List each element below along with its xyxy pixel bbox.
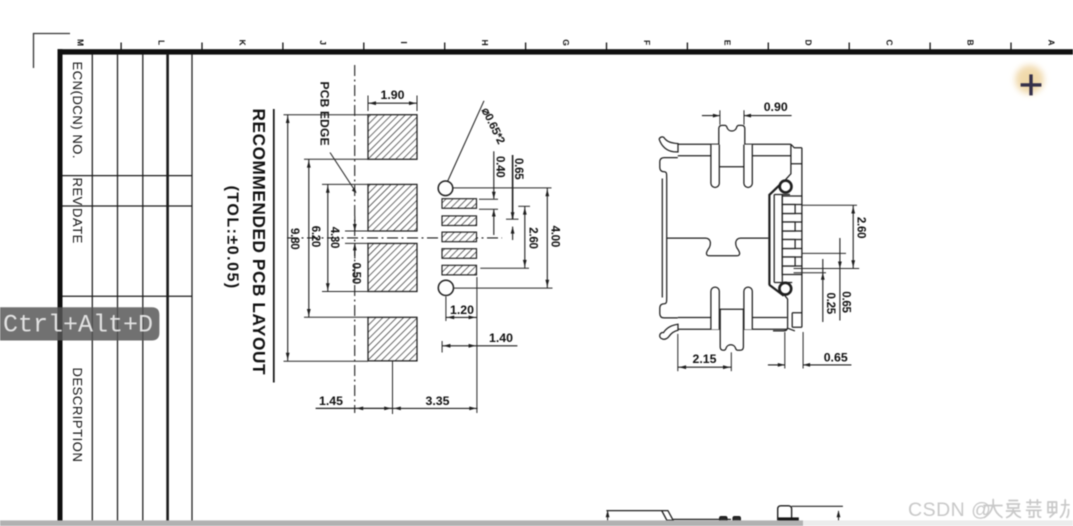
svg-text:2.60: 2.60 <box>527 227 540 248</box>
ext lines 0.90 <box>719 110 721 125</box>
watermark glyph huang <box>1027 500 1042 517</box>
bottom view arrow left <box>607 511 609 520</box>
svg-text:ECN(DCN) NO.: ECN(DCN) NO. <box>70 62 85 160</box>
shield crimp wall <box>768 195 770 285</box>
svg-text:1.40: 1.40 <box>489 331 513 345</box>
contact tooth 2 <box>782 214 802 223</box>
contact ext lines <box>802 204 857 206</box>
contact tooth 1 <box>782 196 802 205</box>
contact tooth 5 <box>782 266 802 275</box>
revision table grid <box>63 54 193 521</box>
svg-text:PCB EDGE: PCB EDGE <box>318 82 332 146</box>
svg-text:B: B <box>965 40 975 46</box>
dimension 0.65 (pitch) <box>839 238 841 321</box>
dimension 4.30 <box>327 184 329 291</box>
top right through-leg <box>744 145 752 188</box>
PCB EDGE leader <box>330 153 356 192</box>
bottom right through-leg <box>744 287 752 329</box>
svg-text:0.40: 0.40 <box>494 156 507 177</box>
svg-text:4.30: 4.30 <box>328 227 341 248</box>
svg-text:(TOL:±0.05): (TOL:±0.05) <box>224 186 241 290</box>
svg-text:M: M <box>76 39 86 46</box>
top-left shield wing <box>659 137 678 152</box>
dimension 0.65 (bottom right) <box>768 364 852 366</box>
svg-text:G: G <box>561 39 571 46</box>
svg-text:0.25: 0.25 <box>824 293 837 315</box>
bottom view tab base (dark) <box>778 517 799 521</box>
dimension 9.80 <box>287 115 289 361</box>
hole circle top <box>438 181 453 196</box>
dimension 4.00 <box>546 188 548 288</box>
dimension 2.15 <box>678 366 732 368</box>
horizontal centerline (dash-dot) <box>287 237 502 239</box>
svg-text:L: L <box>156 40 166 45</box>
connector shell bottom edge <box>678 317 787 319</box>
cursor plus <box>1021 74 1042 95</box>
top left through-leg <box>711 145 719 188</box>
top shield tab with notch <box>719 125 745 166</box>
watermark glyph ye <box>1048 500 1069 518</box>
bottom-left shield tail <box>660 324 678 339</box>
rivet circle bottom <box>779 283 791 295</box>
bottom view leg bump 1 <box>720 517 727 521</box>
svg-text:9.80: 9.80 <box>288 228 301 249</box>
bottom shield tab with notch <box>720 309 743 350</box>
connector shell top edge <box>678 143 791 145</box>
thick top border <box>58 49 1073 54</box>
dimension 6.20 <box>308 159 310 317</box>
svg-text:0.65: 0.65 <box>840 291 853 313</box>
dimension 2.60 <box>524 206 526 268</box>
top-right corner block <box>786 144 802 179</box>
center dovetail notch <box>667 238 768 256</box>
svg-text:4.00: 4.00 <box>549 226 562 247</box>
pad P2 (hatched) <box>368 184 417 231</box>
svg-text:2.15: 2.15 <box>693 352 717 366</box>
small pad S5 (hatched) <box>442 265 477 275</box>
corner crop mark <box>34 34 71 69</box>
svg-text:REV: REV <box>70 178 85 206</box>
svg-text:1.20: 1.20 <box>450 303 474 317</box>
small pad S2 (hatched) <box>442 216 477 226</box>
dimension 0.25 <box>822 259 824 322</box>
svg-text:Ctrl+Alt+D: Ctrl+Alt+D <box>3 311 153 340</box>
svg-text:1.45: 1.45 <box>319 394 343 408</box>
bottom-left latch tab <box>660 298 678 318</box>
ext lines 2.15 <box>677 334 679 371</box>
crimp slant bottom <box>769 285 784 296</box>
svg-text:DATE: DATE <box>70 208 85 244</box>
table labels <box>70 62 85 463</box>
watermark glyph xiang <box>1007 501 1021 518</box>
contact gap 2 <box>782 222 795 231</box>
contact tooth 4 <box>782 249 802 258</box>
video progress bar (remaining) <box>803 520 1073 526</box>
bottom view leg bump 2 <box>733 517 740 521</box>
pad P3 (hatched) <box>368 243 417 291</box>
bottom-right seam <box>773 294 795 331</box>
dimension 2.60 (right) <box>852 205 854 268</box>
bottom view mid line <box>673 518 731 520</box>
PCB edge centerline (vertical dash-dot) <box>354 65 356 413</box>
svg-text:A: A <box>1046 40 1056 46</box>
right wall <box>801 148 803 327</box>
cursor highlight blob <box>1015 65 1044 94</box>
bottom left through-leg <box>711 287 719 329</box>
svg-text:0.50: 0.50 <box>350 263 363 284</box>
svg-text:1.90: 1.90 <box>381 88 405 102</box>
svg-text:0.90: 0.90 <box>764 100 788 114</box>
dimension 1.90 <box>368 102 417 104</box>
svg-text:0.65: 0.65 <box>512 158 525 180</box>
bottom view arrow right <box>838 511 840 520</box>
dimension 1.20 <box>446 316 477 318</box>
svg-text:D: D <box>804 40 814 46</box>
svg-text:0.65: 0.65 <box>824 350 848 364</box>
watermark glyph da <box>984 500 1002 518</box>
svg-text:CSDN @: CSDN @ <box>908 499 991 521</box>
svg-text:F: F <box>642 40 652 45</box>
svg-text:RECOMMENDED PCB LAYOUT: RECOMMENDED PCB LAYOUT <box>249 109 269 376</box>
small pad S4 (hatched) <box>442 249 477 259</box>
leader dia 0.65 x2 <box>448 101 485 182</box>
video progress bar (played) <box>0 520 803 526</box>
hole circle bottom <box>438 280 453 295</box>
svg-text:J: J <box>318 40 328 45</box>
dimension 0.40 <box>493 151 495 199</box>
contact gap 3 <box>782 240 795 249</box>
bottom view chamfer block <box>662 511 674 521</box>
bottom view top line left <box>606 510 663 512</box>
zone letters row <box>76 39 1057 46</box>
title underline <box>273 109 275 383</box>
svg-text:K: K <box>237 40 247 47</box>
contact gap 4 <box>782 257 795 266</box>
pad P1 (hatched) <box>368 115 417 160</box>
svg-text:C: C <box>885 40 895 46</box>
contact tooth 3 <box>782 231 802 240</box>
crimp slant top <box>769 181 784 195</box>
dimension 3.35 <box>393 407 478 409</box>
dimension 0.65 <box>512 155 514 219</box>
bottom view top line right <box>792 505 843 507</box>
connector left edge (double wall) <box>661 179 663 298</box>
svg-text:6.20: 6.20 <box>309 226 322 247</box>
dimension 1.40 <box>442 345 517 347</box>
small pad S1 (hatched) <box>442 199 477 209</box>
bottom view tab <box>778 506 792 521</box>
pad P4 (hatched) <box>368 317 417 361</box>
top-left latch tab <box>660 158 678 179</box>
dimension 0.50 <box>354 216 356 231</box>
svg-text:H: H <box>480 40 490 46</box>
small pad S3 (hatched) <box>442 232 477 242</box>
svg-text:I: I <box>399 41 409 43</box>
Ctrl+Alt+D overlay badge <box>0 307 159 340</box>
svg-text:E: E <box>723 40 733 46</box>
bottom-right corner block <box>792 313 802 328</box>
contact tongue <box>773 195 775 283</box>
rivet circle top <box>780 181 792 193</box>
svg-text:2.60: 2.60 <box>854 217 867 238</box>
ext lines 0.65 bottom <box>784 332 786 369</box>
dimension 0.90 <box>702 115 792 117</box>
svg-text:3.35: 3.35 <box>426 394 450 408</box>
thick left border <box>58 49 63 520</box>
contact gap 1 <box>782 205 795 214</box>
dimension 1.45 <box>316 407 393 409</box>
extension lines <box>284 96 553 415</box>
svg-text:DESCRIPTION: DESCRIPTION <box>70 368 85 463</box>
